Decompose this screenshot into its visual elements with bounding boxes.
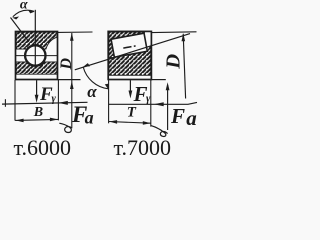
B extension line right (square right edge extended) (57, 80, 59, 120)
bearing square outline (left) (16, 32, 58, 80)
contact line (right, long inclined) (75, 34, 190, 70)
svg-text:D: D (58, 58, 75, 71)
Fr force arrow (right) (129, 80, 133, 98)
application point hook (right) (151, 126, 168, 137)
inner ring hatch (left) (16, 45, 57, 74)
bearing square outline (right) (108, 31, 151, 79)
svg-text:γ: γ (146, 94, 151, 105)
axis end tick (left) (4, 99, 6, 107)
Fr label (left) (39, 84, 57, 105)
D dimension arrow bottom (left, pointing up below extension) (70, 81, 74, 89)
contact line (left, inclined) (11, 18, 29, 42)
hatch below roller (right) (109, 46, 151, 76)
angle alpha arc (right) (82, 63, 109, 90)
Fa label (left) (71, 102, 94, 128)
B dimension line (15, 119, 58, 120)
T dimension line (109, 122, 151, 124)
Fa label (right) (170, 104, 197, 130)
svg-text:т.7000: т.7000 (114, 135, 171, 160)
svg-text:т.6000: т.6000 (14, 135, 71, 160)
svg-text:D: D (163, 54, 185, 70)
D dimension line (right) (183, 34, 185, 99)
shaft axis line (right) (109, 102, 198, 104)
svg-text:T: T (127, 105, 137, 121)
angle alpha arc (left) (12, 9, 35, 20)
shaft axis line (left) (2, 102, 88, 104)
svg-text:B: B (33, 105, 43, 120)
ball horizontal centerline (16, 55, 57, 57)
application point hook (left) (59, 123, 71, 132)
B arrow right (50, 118, 58, 122)
D dimension line (left) (71, 33, 73, 128)
Fa arrowhead (right, pointing left on axis) (154, 102, 164, 106)
T arrow left (109, 120, 117, 124)
svg-text:a: a (186, 106, 197, 130)
Fa vertical line with up arrow (right) (166, 82, 170, 130)
tapered roller (right) (111, 33, 147, 57)
svg-text:a: a (85, 108, 94, 128)
T arrow right (143, 121, 151, 125)
ball (left) (25, 46, 45, 66)
Fr label (right) (133, 82, 152, 106)
svg-text:α: α (87, 82, 97, 101)
Fr force arrow (left) (35, 80, 39, 103)
alpha vertical reference / T left extension (right) (108, 80, 110, 124)
hatch above roller (right) (109, 32, 145, 58)
D top extension line (left) (58, 31, 93, 33)
B extension line left (14, 80, 16, 121)
svg-text:γ: γ (52, 94, 57, 105)
roller axis dash-dot (123, 46, 135, 48)
D bottom extension line (right) (152, 79, 166, 81)
svg-text:F: F (170, 104, 185, 128)
D top extension line (right) (152, 31, 197, 34)
outer ring hatch (left) (16, 32, 57, 66)
D dimension arrow (right) (182, 33, 186, 41)
D bottom extension line (left) (58, 79, 81, 81)
Fa arrowhead (left, pointing left on axis) (58, 101, 68, 105)
B arrow left (16, 119, 24, 123)
vertical centerline through ball (34, 10, 36, 67)
T right extension line (150, 80, 152, 127)
D dimension arrow top (left) (70, 33, 74, 41)
